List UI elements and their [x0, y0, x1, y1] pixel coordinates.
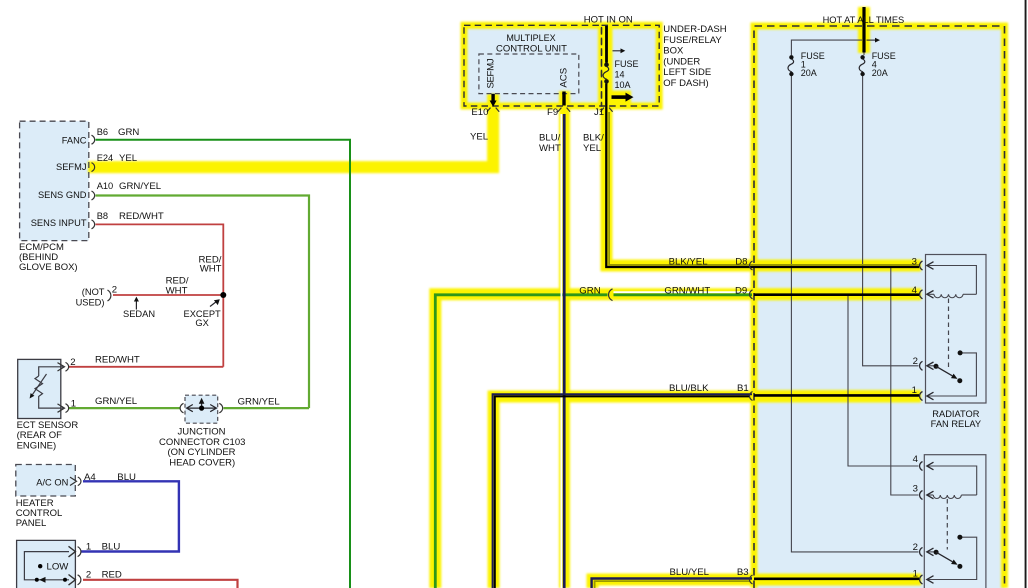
svg-text:D9: D9: [735, 285, 747, 296]
svg-text:1: 1: [912, 385, 917, 396]
svg-text:GRN/YEL: GRN/YEL: [95, 396, 138, 407]
svg-text:HOT IN ON: HOT IN ON: [584, 15, 633, 26]
svg-text:GRN: GRN: [579, 285, 600, 296]
svg-text:GRN/WHT: GRN/WHT: [664, 285, 710, 296]
svg-text:(UNDER: (UNDER: [663, 56, 700, 67]
svg-text:E10: E10: [471, 107, 488, 118]
svg-text:SEDAN: SEDAN: [123, 309, 155, 319]
svg-text:SEFMJ: SEFMJ: [486, 58, 497, 88]
svg-text:BLU: BLU: [117, 472, 136, 483]
svg-text:2: 2: [86, 570, 91, 581]
svg-text:20A: 20A: [872, 68, 888, 78]
svg-text:A/C ON: A/C ON: [36, 477, 68, 487]
svg-text:2: 2: [913, 542, 918, 553]
svg-text:SENS GND: SENS GND: [38, 190, 87, 200]
svg-text:(NOT: (NOT: [82, 287, 105, 297]
svg-text:BLU/YEL: BLU/YEL: [670, 567, 710, 578]
svg-text:14: 14: [615, 70, 625, 80]
svg-text:GRN: GRN: [118, 127, 139, 138]
svg-text:1: 1: [913, 569, 918, 580]
svg-text:10A: 10A: [615, 80, 631, 90]
svg-text:A4: A4: [84, 472, 96, 483]
svg-text:FUSE: FUSE: [615, 59, 639, 69]
svg-text:20A: 20A: [801, 68, 817, 78]
svg-text:RED/WHT: RED/WHT: [119, 211, 164, 222]
svg-text:BLK/YEL: BLK/YEL: [669, 256, 709, 267]
svg-text:2: 2: [913, 356, 918, 367]
svg-text:RED: RED: [102, 570, 122, 581]
svg-text:LEFT SIDE: LEFT SIDE: [663, 67, 711, 78]
svg-text:SEFMJ: SEFMJ: [56, 162, 86, 172]
svg-text:USED): USED): [76, 298, 105, 308]
svg-text:BLU/: BLU/: [539, 133, 561, 144]
svg-text:YEL: YEL: [583, 143, 602, 154]
svg-text:BLK/: BLK/: [583, 133, 604, 144]
svg-text:A10: A10: [97, 181, 114, 191]
svg-text:SENS INPUT: SENS INPUT: [31, 218, 87, 228]
svg-text:HOT AT ALL TIMES: HOT AT ALL TIMES: [823, 15, 905, 25]
svg-text:BOX: BOX: [663, 46, 684, 57]
svg-text:4: 4: [912, 285, 918, 296]
svg-text:BLU: BLU: [102, 542, 121, 553]
svg-text:J1: J1: [594, 107, 604, 118]
svg-text:OF DASH): OF DASH): [663, 78, 708, 89]
svg-text:1: 1: [86, 542, 91, 553]
svg-text:CONTROL UNIT: CONTROL UNIT: [496, 43, 567, 54]
svg-text:WHT: WHT: [166, 285, 188, 296]
svg-text:4: 4: [913, 454, 919, 465]
svg-text:MULTIPLEX: MULTIPLEX: [506, 33, 555, 43]
svg-text:WHT: WHT: [539, 143, 561, 154]
svg-text:B3: B3: [737, 567, 749, 578]
svg-text:ENGINE): ENGINE): [17, 440, 57, 451]
svg-text:D8: D8: [735, 256, 747, 267]
svg-text:GRN/YEL: GRN/YEL: [119, 181, 162, 192]
svg-text:2: 2: [70, 357, 75, 368]
svg-text:3: 3: [912, 256, 917, 267]
svg-text:B6: B6: [97, 127, 108, 137]
svg-text:YEL: YEL: [470, 131, 489, 142]
svg-text:B8: B8: [97, 211, 108, 221]
svg-text:RADIATOR: RADIATOR: [932, 409, 979, 419]
svg-text:LOW: LOW: [47, 562, 70, 573]
svg-text:GLOVE BOX): GLOVE BOX): [19, 262, 78, 273]
svg-text:FANC: FANC: [62, 135, 87, 145]
svg-text:WHT: WHT: [200, 264, 222, 275]
svg-text:YEL: YEL: [119, 153, 138, 164]
svg-text:2: 2: [112, 285, 117, 296]
svg-text:BLU/BLK: BLU/BLK: [669, 383, 709, 394]
svg-text:FUSE/RELAY: FUSE/RELAY: [663, 35, 722, 46]
svg-text:GX: GX: [195, 318, 208, 328]
svg-text:B1: B1: [737, 383, 749, 394]
svg-text:FAN RELAY: FAN RELAY: [931, 419, 981, 429]
svg-text:RED/WHT: RED/WHT: [95, 355, 140, 366]
svg-text:GRN/YEL: GRN/YEL: [238, 397, 281, 408]
svg-text:PANEL: PANEL: [16, 518, 46, 529]
svg-text:1: 1: [71, 399, 76, 410]
svg-text:3: 3: [913, 484, 918, 495]
svg-text:UNDER-DASH: UNDER-DASH: [663, 24, 726, 35]
svg-text:E24: E24: [97, 153, 114, 163]
svg-text:ACS: ACS: [559, 68, 570, 88]
svg-text:F9: F9: [547, 107, 558, 118]
svg-text:HEAD COVER): HEAD COVER): [169, 457, 235, 468]
